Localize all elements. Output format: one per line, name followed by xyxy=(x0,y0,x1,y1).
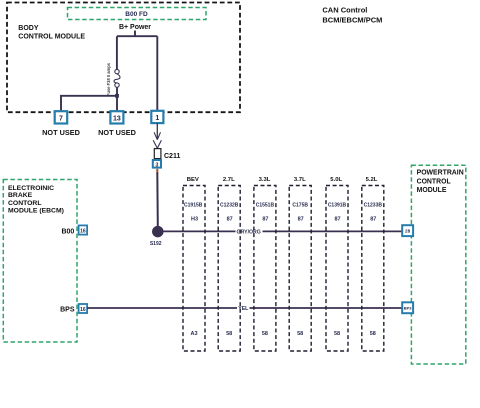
pin 16 (EBCM BPS) xyxy=(79,304,88,313)
svg-text:3.3L: 3.3L xyxy=(259,177,271,183)
svg-text:3.7L: 3.7L xyxy=(294,177,306,183)
svg-text:87: 87 xyxy=(298,217,304,223)
svg-text:B00: B00 xyxy=(61,229,74,236)
svg-text:BCM/EBCM/PCM: BCM/EBCM/PCM xyxy=(322,15,382,24)
svg-text:CONTORL: CONTORL xyxy=(8,200,41,207)
svg-text:16: 16 xyxy=(80,228,86,234)
label GRY/ORG xyxy=(236,227,263,235)
pin 28 (PCM) xyxy=(402,225,413,236)
pin 13 (BCM, not used) xyxy=(110,111,123,123)
svg-text:S192: S192 xyxy=(150,241,162,247)
fuse F38 5 amps xyxy=(106,62,120,96)
svg-text:NOT USED: NOT USED xyxy=(98,128,136,137)
wire pin 1 down with arrow into C211 xyxy=(153,123,161,148)
pin 1 (BCM) xyxy=(151,111,163,123)
svg-text:58: 58 xyxy=(226,331,232,337)
svg-text:B+ Power: B+ Power xyxy=(119,24,151,31)
module box PCM (Powertrain Control Module) xyxy=(411,165,465,364)
wire branch to pin 7 xyxy=(61,96,117,112)
svg-text:BEV: BEV xyxy=(187,177,199,183)
module box EBCM (Electronic Brake Control Module) xyxy=(3,180,77,343)
pin 7 (BCM, not used) xyxy=(55,111,67,123)
junction at fuse output xyxy=(115,94,119,98)
svg-text:C175B: C175B xyxy=(292,203,308,209)
svg-text:C211: C211 xyxy=(164,153,180,160)
variant column 5.2L xyxy=(362,177,384,351)
label NOT USED (pin 7) xyxy=(42,128,80,137)
wire C211 pin 3 to splice S192 xyxy=(156,169,159,227)
label B00 xyxy=(61,229,74,236)
svg-text:MODULE (EBCM): MODULE (EBCM) xyxy=(8,207,64,214)
wire B+ power feed xyxy=(117,31,157,112)
svg-text:CONTROL MODULE: CONTROL MODULE xyxy=(18,34,85,41)
module box BCM (Body Control Module) xyxy=(7,3,240,113)
svg-text:C1551B: C1551B xyxy=(256,203,275,209)
svg-text:BP3: BP3 xyxy=(404,306,413,311)
svg-text:Fuse F38 5 amps: Fuse F38 5 amps xyxy=(106,62,111,96)
svg-text:58: 58 xyxy=(297,331,303,337)
variant column 3.3L xyxy=(254,177,276,351)
svg-text:CONTROL: CONTROL xyxy=(417,178,451,185)
variant column 5.0L xyxy=(326,177,348,351)
variant column 2.7L xyxy=(218,177,240,351)
wire fuse output to pin 13 xyxy=(116,87,118,111)
svg-text:16: 16 xyxy=(80,307,86,313)
svg-text:1: 1 xyxy=(155,115,159,122)
svg-text:58: 58 xyxy=(262,331,268,337)
svg-text:C1915B: C1915B xyxy=(184,203,203,209)
svg-text:MODULE: MODULE xyxy=(417,187,447,194)
svg-text:BRAKE: BRAKE xyxy=(8,192,33,199)
svg-text:C1233B: C1233B xyxy=(364,203,383,209)
label NOT USED (pin 13) xyxy=(98,128,136,137)
svg-text:3: 3 xyxy=(156,162,159,168)
svg-text:13: 13 xyxy=(113,115,121,122)
label BPS xyxy=(60,307,75,314)
svg-text:5.0L: 5.0L xyxy=(330,177,342,183)
net B00 FD (fuse feed) xyxy=(68,8,207,20)
label CAN Control BCM/EBCM/PCM xyxy=(322,5,382,24)
label YEL xyxy=(237,304,250,312)
svg-text:POWERTRAIN: POWERTRAIN xyxy=(417,170,464,177)
wire GRY/ORG (S192 to PCM pin 28) xyxy=(158,230,403,232)
svg-text:87: 87 xyxy=(370,217,376,223)
pin 3 (C211) xyxy=(153,160,161,168)
svg-text:58: 58 xyxy=(334,331,340,337)
svg-text:58: 58 xyxy=(370,331,376,337)
svg-text:87: 87 xyxy=(334,217,340,223)
splice S192 xyxy=(150,226,164,247)
svg-text:A3: A3 xyxy=(190,331,197,337)
svg-text:87: 87 xyxy=(262,217,268,223)
svg-text:H3: H3 xyxy=(191,217,198,223)
svg-text:28: 28 xyxy=(405,229,411,234)
net B+ Power xyxy=(119,24,151,31)
svg-text:7: 7 xyxy=(59,115,63,122)
svg-text:BODY: BODY xyxy=(18,25,39,32)
variant column 3.7L xyxy=(289,177,311,351)
svg-text:5.2L: 5.2L xyxy=(366,177,378,183)
pin BP3 (PCM) xyxy=(402,302,413,313)
svg-text:87: 87 xyxy=(227,217,233,223)
svg-text:ELECTROINIC: ELECTROINIC xyxy=(8,185,54,192)
wire YEL (EBCM BPS to PCM BP3) xyxy=(87,307,402,309)
variant column BEV xyxy=(183,177,205,351)
svg-text:NOT USED: NOT USED xyxy=(42,128,80,137)
svg-text:C1232B: C1232B xyxy=(220,203,239,209)
svg-text:B00 FD: B00 FD xyxy=(125,11,148,18)
connector C211 xyxy=(154,149,180,160)
svg-text:2.7L: 2.7L xyxy=(223,177,235,183)
svg-text:BPS: BPS xyxy=(60,307,75,314)
pin 16 (EBCM B00) xyxy=(79,225,88,234)
svg-text:C1391B: C1391B xyxy=(328,203,347,209)
svg-text:CAN Control: CAN Control xyxy=(322,5,367,14)
